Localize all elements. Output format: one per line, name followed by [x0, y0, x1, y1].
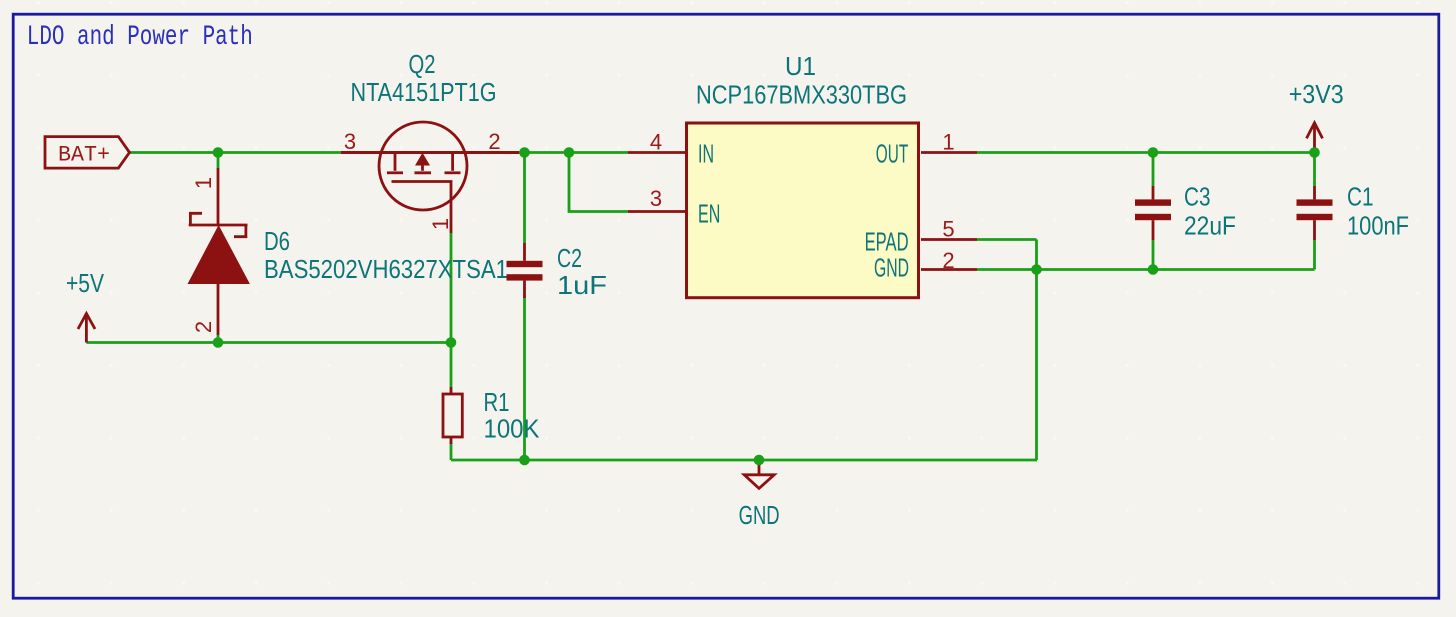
pin U1 EN stub: [628, 210, 687, 213]
svg-text:D6: D6: [264, 226, 290, 256]
wire C2 top: [523, 153, 526, 244]
ground symbol: [744, 460, 774, 488]
svg-text:U1: U1: [785, 51, 816, 81]
svg-text:100nF: 100nF: [1347, 210, 1409, 240]
svg-text:3: 3: [650, 186, 662, 211]
wire OUT net: [977, 151, 1315, 154]
svg-text:5: 5: [942, 217, 954, 242]
node GND junction: [754, 455, 765, 466]
node +3V3 junction: [1309, 147, 1320, 158]
wire BAT+ to Q2 pin3: [129, 151, 341, 154]
svg-text:LDO and Power Path: LDO and Power Path: [27, 22, 253, 53]
wires (green): [86, 153, 1314, 461]
node D6 pin2 junction: [213, 337, 224, 348]
svg-text:3: 3: [344, 129, 356, 154]
svg-text:GND: GND: [739, 500, 780, 530]
wire EPAD vertical down: [1035, 240, 1038, 461]
wire bottom GND rail: [451, 459, 1037, 462]
capacitor C1: [1297, 186, 1333, 240]
node C2 top junction: [519, 147, 530, 158]
resistor R1: [443, 387, 462, 444]
pin U1 OUT stub: [921, 151, 977, 154]
svg-text:C2: C2: [557, 243, 582, 273]
wire EPAD to corner: [977, 238, 1037, 241]
svg-text:2: 2: [942, 248, 954, 273]
capacitor C2: [507, 243, 543, 298]
svg-text:1: 1: [191, 177, 216, 189]
svg-text:+3V3: +3V3: [1289, 79, 1344, 109]
transistor Q2: [379, 122, 467, 233]
svg-text:GND: GND: [874, 253, 909, 283]
svg-text:NCP167BMX330TBG: NCP167BMX330TBG: [696, 80, 907, 110]
svg-text:100K: 100K: [484, 414, 541, 444]
wire GND net horizontal: [977, 268, 1315, 271]
svg-text:EN: EN: [698, 198, 720, 228]
diode D6: [188, 168, 250, 335]
svg-text:BAS5202VH6327XTSA1: BAS5202VH6327XTSA1: [264, 254, 508, 284]
node C2 bottom junction: [519, 455, 530, 466]
node BAT+/D6 junction: [213, 147, 224, 158]
node C3 top junction: [1148, 147, 1159, 158]
wire D6 pin1 drop: [217, 153, 220, 169]
wire EN loop: [569, 153, 628, 212]
wire gate to rail: [450, 233, 453, 343]
wire R1 to bottom rail: [450, 443, 453, 460]
wire C3 bottom: [1152, 240, 1155, 270]
wire C1 bottom: [1313, 240, 1316, 270]
pin U1 IN stub: [628, 151, 687, 154]
node gate/R1 junction: [446, 337, 457, 348]
wire D6 pin2 to +5V rail: [217, 335, 220, 343]
svg-text:OUT: OUT: [876, 138, 908, 168]
node EPAD/GND junction: [1031, 264, 1042, 275]
capacitor C3: [1135, 186, 1171, 240]
wire Q2 pin2 to U1 IN: [519, 151, 628, 154]
power +5V: [78, 313, 95, 343]
wire +5V rail: [86, 341, 451, 344]
svg-text:2: 2: [191, 321, 216, 333]
IC U1: [687, 123, 919, 298]
power +3V3: [1307, 122, 1323, 152]
svg-text:4: 4: [650, 130, 662, 155]
svg-text:R1: R1: [484, 387, 510, 417]
svg-text:IN: IN: [698, 138, 714, 168]
wire C3 top: [1152, 153, 1155, 187]
svg-text:+5V: +5V: [66, 268, 105, 298]
svg-text:NTA4151PT1G: NTA4151PT1G: [351, 77, 497, 107]
pin U1 EPAD stub: [921, 238, 977, 241]
wire C2 bottom: [523, 297, 526, 460]
svg-text:C3: C3: [1184, 181, 1211, 211]
svg-text:22uF: 22uF: [1184, 210, 1236, 240]
wire C1 top: [1313, 153, 1316, 187]
node C3 bottom junction: [1148, 264, 1159, 275]
wire rail to R1: [450, 343, 453, 388]
svg-text:1: 1: [428, 218, 453, 230]
svg-text:1uF: 1uF: [557, 270, 607, 300]
node EN junction: [564, 147, 575, 158]
svg-text:1: 1: [942, 130, 954, 155]
svg-text:C1: C1: [1347, 181, 1374, 211]
Q2 channel line: [341, 151, 519, 154]
svg-text:Q2: Q2: [409, 49, 436, 79]
svg-text:BAT+: BAT+: [58, 143, 110, 168]
pin U1 GND stub: [921, 268, 977, 271]
svg-text:2: 2: [488, 129, 500, 154]
net label BAT+: [45, 137, 130, 169]
